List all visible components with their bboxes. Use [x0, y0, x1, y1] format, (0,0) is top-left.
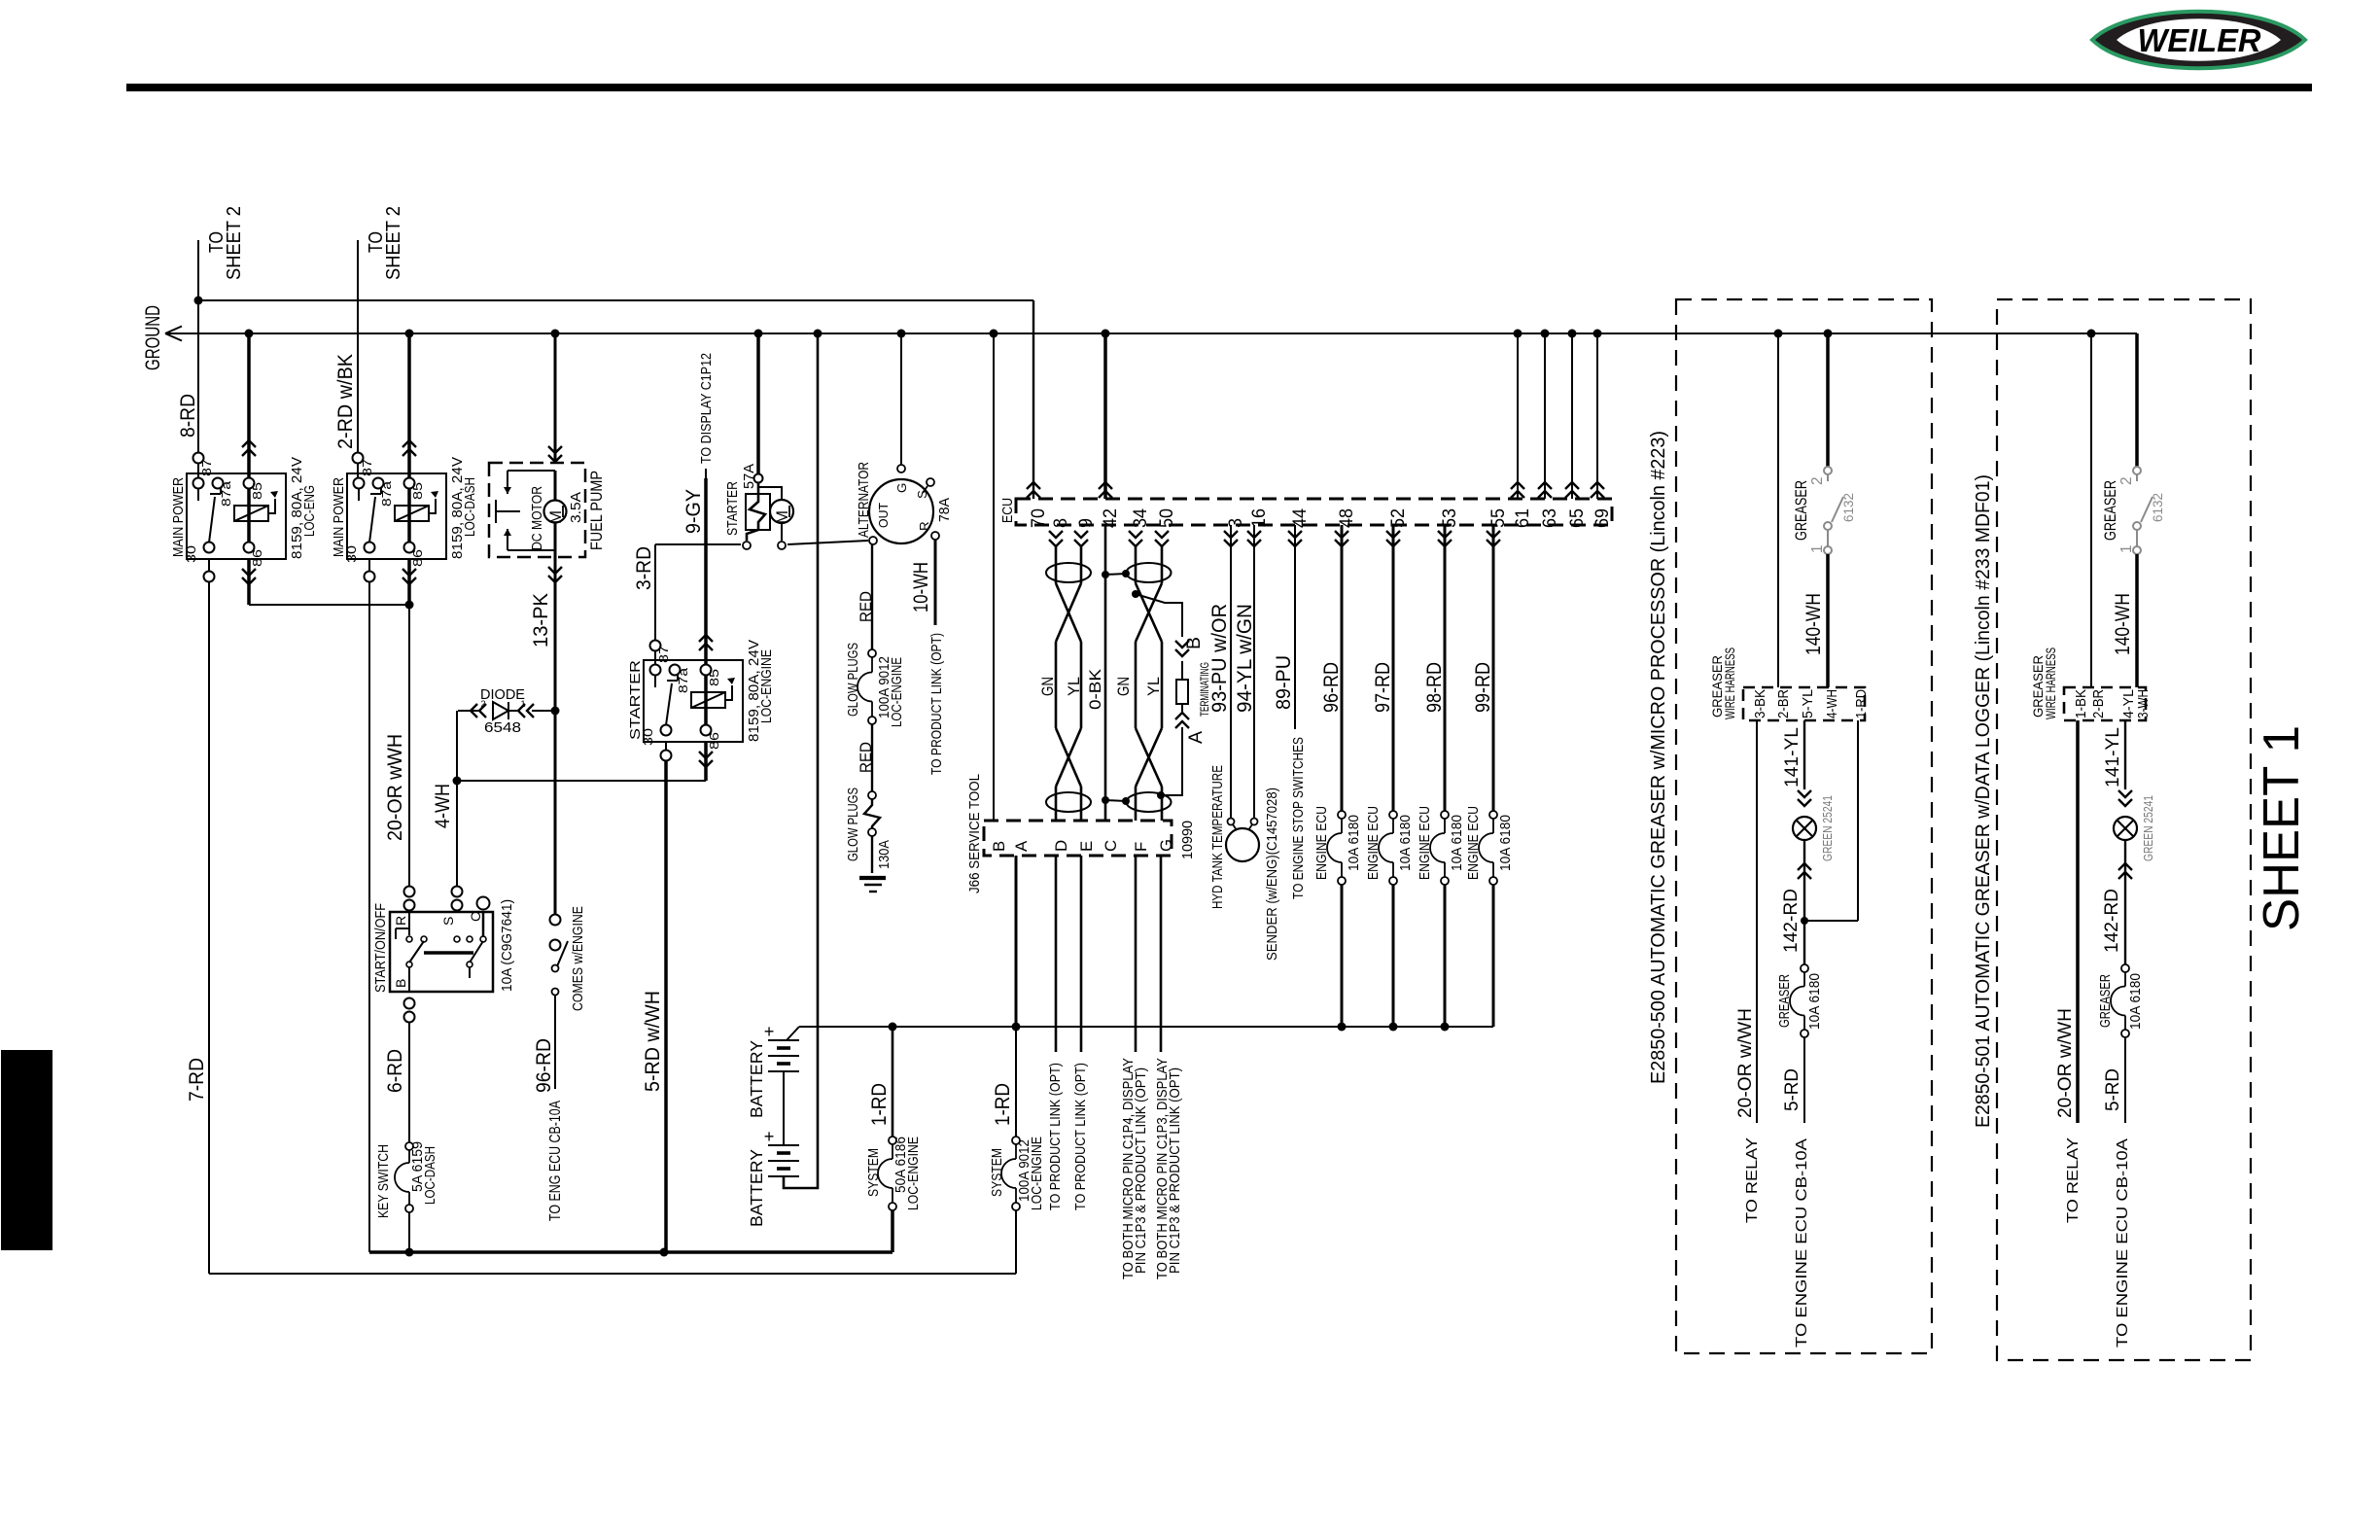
wire J66 B to ground [993, 333, 995, 821]
svg-text:YL: YL [1065, 677, 1083, 696]
svg-text:96-RD: 96-RD [533, 1038, 555, 1093]
wire 98-RD upper [1423, 525, 1446, 811]
relay K3 STARTER [628, 640, 775, 750]
label GREASER WIRE HARNESS g1 [1709, 647, 1737, 719]
wire 99-RD lower [1492, 885, 1495, 1027]
svg-text:ECU: ECU [1000, 498, 1016, 523]
GROUND label [142, 305, 164, 370]
wire J66 A down [1015, 856, 1018, 1027]
ECU pin 44 number [1289, 508, 1311, 528]
svg-text:97-RD: 97-RD [1372, 662, 1394, 713]
svg-text:TO ENGINE STOP SWITCHES: TO ENGINE STOP SWITCHES [1291, 737, 1307, 899]
label COMES w/ENGINE [571, 906, 586, 1011]
wire 97-RD upper [1372, 525, 1394, 811]
J66 pin A [1012, 840, 1031, 852]
wire 86-4WH link [457, 780, 706, 782]
label LOC-ENGINE f1 [906, 1137, 922, 1210]
ECU pin 44 chevron [1288, 531, 1302, 546]
terminal keyswitch C [477, 897, 490, 910]
svg-text:0-BK: 0-BK [1086, 669, 1104, 710]
label FUEL PUMP [587, 471, 606, 550]
label SYSTEM f2 [990, 1148, 1005, 1197]
svg-text:E: E [1077, 841, 1096, 852]
label YL 2 [1144, 677, 1163, 696]
node pin42 ground [1102, 330, 1110, 338]
svg-text:10A 6180: 10A 6180 [1347, 815, 1362, 871]
wire 3-RD into relay [654, 651, 656, 670]
node shield bot b [1122, 797, 1130, 805]
ECU pin 52 number [1387, 508, 1409, 528]
wire ECU pin42 to ground [1099, 333, 1112, 499]
label TO RELAY g1 [1743, 1137, 1761, 1223]
label TO ENGINE ECU CB-10A g1 [1793, 1138, 1810, 1347]
svg-text:DC MOTOR: DC MOTOR [530, 486, 545, 550]
wire greaser1 2-BR [1777, 333, 1779, 687]
wire ECU pin61 to ground [1511, 333, 1524, 499]
svg-text:B: B [1183, 637, 1205, 649]
label TO DISPLAY C1P12 [699, 353, 715, 478]
label 10A 6180 97 [1398, 815, 1414, 871]
node shield bot a [1102, 796, 1109, 804]
terminal 3-RD [650, 641, 661, 651]
fuse GLOW PLUGS 100A 9012 [857, 649, 876, 724]
svg-text:65: 65 [1566, 508, 1588, 528]
terminal keyswitch S a [452, 887, 463, 897]
svg-text:ENGINE ECU: ENGINE ECU [1366, 806, 1382, 880]
wire J66 D down [1055, 856, 1058, 1052]
ECU pin 55 chevron [1487, 531, 1500, 546]
ECU pin 61 number [1512, 508, 1533, 528]
svg-text:1-RD: 1-RD [1854, 689, 1870, 718]
svg-text:ALTERNATOR: ALTERNATOR [857, 462, 872, 538]
terminal 2-RD [353, 453, 364, 464]
label STARTER solenoid [725, 481, 741, 536]
svg-text:WEILER: WEILER [2138, 22, 2261, 58]
resistor terminating [1176, 661, 1188, 704]
chevron terminator B [1175, 641, 1189, 656]
svg-text:61: 61 [1512, 508, 1533, 528]
wire 6-RD [384, 1023, 409, 1142]
wire solenoid-3RD [655, 543, 741, 545]
g1 pin 2-BR [1776, 689, 1792, 718]
svg-text:ENGINE ECU: ENGINE ECU [1417, 806, 1433, 880]
node terminator top [1132, 590, 1139, 598]
svg-text:1: 1 [2118, 544, 2135, 553]
svg-text:85: 85 [707, 669, 721, 686]
svg-text:20-OR w/WH: 20-OR w/WH [2054, 1008, 2076, 1118]
svg-text:GREASER: GREASER [1777, 974, 1793, 1028]
label ENGINE ECU 98 [1417, 806, 1433, 880]
wire 10-WH [910, 540, 935, 625]
label 57A [742, 464, 757, 489]
wire 13-PK [530, 557, 562, 914]
node battery2 ground [814, 330, 822, 338]
svg-text:TO ENG ECU CB-10A: TO ENG ECU CB-10A [547, 1100, 564, 1221]
svg-text:TO ENGINE ECU CB-10A: TO ENGINE ECU CB-10A [1793, 1138, 1810, 1347]
wire g1 3-BK [1756, 720, 1758, 1123]
svg-text:G: G [1157, 839, 1175, 852]
wire relay2 85 to ground [402, 333, 416, 478]
svg-text:FUEL PUMP: FUEL PUMP [587, 471, 606, 550]
svg-text:GLOW PLUGS: GLOW PLUGS [846, 787, 861, 861]
svg-text:48: 48 [1336, 508, 1357, 528]
svg-text:D: D [1052, 840, 1070, 852]
ECU pin 50 number [1156, 508, 1177, 528]
svg-text:GREASER: GREASER [2101, 480, 2119, 541]
label DC MOTOR [530, 486, 545, 550]
ECU pin 69 number [1592, 508, 1613, 528]
node J66B ground [990, 330, 998, 338]
label 130A [877, 840, 892, 869]
wire 141-YL g2 [2102, 720, 2132, 806]
label GLOW PLUGS lower [846, 787, 861, 861]
wire 9-GY [682, 478, 713, 665]
label LOC-ENGINE f2 [1030, 1137, 1045, 1210]
ECU pin 55 number [1487, 508, 1509, 528]
label 20-OR w/WH g2 [2054, 1008, 2076, 1118]
switch GREASER 6132 g2 [2133, 467, 2152, 554]
svg-text:OUT: OUT [876, 503, 891, 528]
svg-text:1: 1 [1809, 544, 1826, 553]
label 10A 6180 g1 [1807, 973, 1823, 1030]
motor M fuel pump [544, 471, 567, 557]
svg-text:SHEET 1: SHEET 1 [2253, 725, 2309, 931]
svg-text:3.5A: 3.5A [569, 492, 584, 523]
terminal relay2-30 [365, 572, 375, 582]
svg-text:141-YL: 141-YL [2102, 727, 2123, 787]
wire shield link bot [1105, 800, 1126, 801]
terminal 57A [754, 474, 763, 483]
svg-text:TO RELAY: TO RELAY [2064, 1137, 2082, 1223]
svg-text:10990: 10990 [1180, 821, 1196, 859]
svg-text:4-YL: 4-YL [2121, 689, 2137, 718]
node 142 g1 [1801, 917, 1808, 925]
svg-text:B: B [393, 979, 408, 988]
wire relay2-30 stub [368, 559, 370, 572]
wire 97-RD lower [1392, 885, 1395, 1027]
chevron terminator A [1175, 704, 1189, 728]
ground symbol glow [859, 878, 886, 892]
fuse ENGINE ECU 98 [1430, 811, 1449, 885]
wire 96-RD upper [1320, 525, 1343, 811]
svg-text:PIN C1P3 & PRODUCT LINK (OPT): PIN C1P3 & PRODUCT LINK (OPT) [1168, 1067, 1183, 1274]
ECU pin 34 number [1130, 508, 1151, 528]
svg-text:87: 87 [199, 459, 214, 476]
svg-text:START/ON/OFF: START/ON/OFF [373, 903, 389, 993]
wire fuel pump feed [548, 333, 562, 463]
node fuse bus [1441, 1023, 1450, 1032]
svg-text:TO ENGINE ECU CB-10A: TO ENGINE ECU CB-10A [2114, 1138, 2131, 1347]
wire 5-RD g2 [2102, 1037, 2125, 1123]
label sw1 2 [1809, 476, 1826, 485]
terminal keyswitch B b [404, 1012, 415, 1023]
ground bus [165, 327, 2137, 341]
label 6132 g2 [2150, 493, 2165, 522]
svg-text:ENGINE ECU: ENGINE ECU [1466, 806, 1482, 880]
svg-text:5-RD: 5-RD [1781, 1068, 1802, 1111]
node pin63 ground [1541, 330, 1550, 338]
wire 5-RD g1 [1781, 1037, 1804, 1123]
svg-text:RED: RED [857, 591, 875, 622]
svg-text:5-RD w/WH: 5-RD w/WH [642, 991, 664, 1092]
ECU pin 9 number [1075, 518, 1097, 528]
node pin69 ground [1593, 330, 1602, 338]
wire line B [209, 1273, 1016, 1275]
label 10A 6180 99 [1498, 815, 1514, 871]
label GN 2 [1114, 677, 1133, 696]
svg-text:20-OR wWH: 20-OR wWH [384, 734, 406, 841]
svg-text:STARTER: STARTER [628, 660, 644, 740]
wire 140-WH g1 [1802, 554, 1828, 687]
label YL 1 [1065, 677, 1083, 696]
wire 2-RD into relay [357, 464, 359, 483]
svg-text:10A (C9G7641): 10A (C9G7641) [500, 899, 515, 992]
node pin61 ground [1514, 330, 1522, 338]
ECU pin 9 chevron [1074, 531, 1088, 546]
J66 pin G [1157, 839, 1175, 852]
g2 pin 4-YL [2121, 689, 2137, 718]
svg-text:KEY SWITCH: KEY SWITCH [376, 1144, 392, 1218]
battery 2 [747, 1127, 799, 1227]
label SYSTEM f1 [866, 1148, 882, 1197]
fuse KEY SWITCH 5A 6159 [395, 1142, 413, 1212]
terminal keyswitch B a [404, 998, 415, 1009]
node lineA 5RD [660, 1248, 669, 1257]
svg-text:SHEET 2: SHEET 2 [224, 206, 245, 280]
wire battery2 neg [784, 333, 818, 1188]
J66 pin D [1052, 840, 1070, 852]
svg-text:DIODE: DIODE [480, 687, 525, 703]
wire 3-RD [633, 544, 655, 640]
switch GREASER 6132 g1 [1824, 467, 1843, 554]
label 5A 6159 [410, 1141, 426, 1192]
wire battery1-battery2 [783, 1071, 785, 1145]
lamp GREEN 25241 g2 [2114, 817, 2137, 879]
greaser2 harness box [2064, 687, 2146, 720]
label 100A 9012 [877, 656, 892, 718]
svg-text:RED: RED [857, 742, 875, 773]
svg-text:C: C [1102, 840, 1120, 852]
svg-text:70: 70 [1028, 508, 1049, 528]
svg-text:LOC-ENGINE: LOC-ENGINE [759, 649, 775, 723]
fuse ENGINE ECU 99 [1479, 811, 1497, 885]
label ENGINE ECU 99 [1466, 806, 1482, 880]
svg-text:GN: GN [1038, 677, 1057, 696]
wire greaser2 2-BR [2090, 333, 2092, 687]
svg-text:63: 63 [1539, 508, 1560, 528]
key switch box START/ON/OFF [390, 912, 493, 992]
lamp GREEN 25241 g1 [1793, 817, 1816, 879]
g2 pin 1-BK [2074, 689, 2089, 718]
g1 pin 1-RD [1854, 689, 1870, 718]
svg-text:3: 3 [1225, 518, 1246, 528]
svg-text:140-WH: 140-WH [2112, 593, 2134, 655]
SHEET 1 title [2253, 725, 2309, 931]
ECU pin 16 chevron [1247, 531, 1261, 546]
node 57A ground [754, 330, 763, 338]
starter solenoid box [746, 494, 770, 530]
node sysfuse2 bus [1012, 1023, 1021, 1032]
svg-text:89-PU: 89-PU [1273, 655, 1295, 710]
label TO BOTH MICRO C1P4 line2 [1134, 1067, 1149, 1274]
label 50A 6186 [893, 1137, 909, 1193]
wire battery1 pos [787, 1027, 799, 1040]
label 20-OR w/WH g1 [1734, 1008, 1756, 1118]
label GREASER WIRE HARNESS g2 [2030, 647, 2058, 719]
label GREASER fuse g1 [1777, 974, 1793, 1028]
wire terminator bottom link [1161, 727, 1182, 795]
svg-text:TO PRODUCT LINK (OPT): TO PRODUCT LINK (OPT) [929, 633, 945, 775]
svg-text:PIN C1P3 & PRODUCT LINK (OPT): PIN C1P3 & PRODUCT LINK (OPT) [1134, 1067, 1149, 1274]
svg-text:TO RELAY: TO RELAY [1743, 1137, 1761, 1223]
svg-text:STARTER: STARTER [725, 481, 741, 536]
J66 pin C [1102, 840, 1120, 852]
svg-text:LOC-ENGINE: LOC-ENGINE [1030, 1137, 1045, 1210]
label sw2 2 [2118, 476, 2135, 485]
label 78A [937, 498, 953, 522]
label 10A 6180 98 [1450, 815, 1465, 871]
svg-text:5-RD: 5-RD [2102, 1068, 2123, 1111]
wire greaser2 switch feed [2135, 333, 2139, 467]
svg-text:E2850-501 AUTOMATIC GREASER w/: E2850-501 AUTOMATIC GREASER w/DATA LOGGE… [1973, 474, 1994, 1128]
node sysfuse1 bus [889, 1023, 897, 1032]
ECU pin 53 chevron [1438, 531, 1452, 546]
g1 pin 5-YL [1801, 689, 1816, 718]
label TERMINATING [1198, 662, 1211, 717]
svg-text:6132: 6132 [2150, 493, 2165, 522]
connector 13-PK a [550, 915, 561, 926]
fuse SYSTEM 100A 9012 [1001, 1137, 1020, 1210]
svg-text:R: R [917, 521, 931, 531]
wire J66 E down [1080, 856, 1083, 1052]
to-sheet-2 bus [198, 300, 1040, 499]
svg-text:LOC-ENGINE: LOC-ENGINE [890, 657, 905, 727]
svg-text:86: 86 [410, 549, 425, 567]
ECU pin 53 number [1439, 508, 1460, 528]
svg-text:16: 16 [1248, 508, 1270, 528]
svg-text:GN: GN [1114, 677, 1133, 696]
label 100A 9012 f2 [1017, 1139, 1032, 1202]
wire solenoid-alternator [787, 541, 868, 544]
svg-text:141-YL: 141-YL [1781, 727, 1802, 787]
wire 96-RD [533, 995, 555, 1093]
label sw1 1 [1809, 544, 1826, 553]
svg-text:87a: 87a [676, 667, 690, 693]
label GREEN 25241 g1 [1821, 795, 1835, 861]
label TO ENG ECU CB-10A [547, 1100, 564, 1221]
svg-text:LOC-ENGINE: LOC-ENGINE [906, 1137, 922, 1210]
label GREASER sw2 [2101, 480, 2119, 541]
svg-text:98-RD: 98-RD [1423, 662, 1446, 713]
wire 7-RD [186, 582, 209, 1274]
svg-text:LOC-DASH: LOC-DASH [423, 1146, 438, 1205]
motor M starter [758, 487, 793, 541]
svg-text:GLOW PLUGS: GLOW PLUGS [846, 643, 861, 717]
connector 13-PK b [550, 940, 561, 951]
svg-text:8-RD: 8-RD [177, 394, 199, 437]
wire f2 to lineB [1015, 1210, 1017, 1274]
wire f1 to lineA [891, 1210, 894, 1252]
svg-text:2: 2 [1809, 476, 1826, 485]
wire 2-RD w/BK [334, 240, 358, 452]
node fuse bus [1338, 1023, 1347, 1032]
svg-text:20-OR w/WH: 20-OR w/WH [1734, 1008, 1756, 1118]
svg-text:2: 2 [2118, 476, 2135, 485]
svg-text:BATTERY: BATTERY [747, 1040, 766, 1118]
svg-text:F: F [1132, 842, 1150, 852]
wire 20-OR wWH [384, 605, 409, 886]
svg-text:87: 87 [360, 459, 374, 476]
terminal solenoid L [743, 542, 751, 549]
node 4WH-86 junction [453, 777, 462, 786]
svg-text:TO PRODUCT LINK (OPT): TO PRODUCT LINK (OPT) [1073, 1063, 1089, 1210]
svg-text:GREEN 25241: GREEN 25241 [2142, 795, 2155, 861]
terminal solenoid R [778, 542, 786, 549]
label GREASER fuse g2 [2098, 974, 2114, 1028]
svg-text:COMES w/ENGINE: COMES w/ENGINE [571, 906, 586, 1011]
svg-text:R: R [393, 916, 408, 926]
svg-text:LOC-ENG: LOC-ENG [302, 485, 318, 537]
svg-text:2-BR: 2-BR [1776, 689, 1792, 718]
svg-text:69: 69 [1592, 508, 1613, 528]
wire 94-YL [1234, 525, 1256, 818]
label 10A 6180 96 [1347, 815, 1362, 871]
ECU pin 48 chevron [1335, 531, 1348, 546]
svg-text:87: 87 [656, 646, 671, 663]
node fuelpump ground [551, 330, 560, 338]
svg-text:YL: YL [1144, 677, 1163, 696]
svg-text:10A 6180: 10A 6180 [1398, 815, 1414, 871]
label ALTERNATOR [857, 462, 872, 538]
wire line A [369, 1250, 892, 1254]
svg-text:J66 SERVICE TOOL: J66 SERVICE TOOL [967, 774, 983, 893]
svg-text:SENDER (w/ENG)(C1457028): SENDER (w/ENG)(C1457028) [1265, 787, 1280, 961]
fuse GREASER 10A 6180 g2 [2111, 964, 2129, 1037]
svg-text:85: 85 [410, 482, 425, 500]
wire 5-RD w/WH [642, 761, 666, 1252]
label 0-BK [1086, 669, 1104, 710]
J66 service tool box [984, 821, 1172, 856]
svg-text:G: G [894, 483, 909, 493]
wire terminator top link [1136, 594, 1182, 637]
fuse SYSTEM 50A 6186 [878, 1137, 896, 1210]
wire g2 1-BK [2076, 720, 2080, 1123]
svg-text:2-RD w/BK: 2-RD w/BK [334, 354, 357, 449]
svg-text:S: S [440, 917, 456, 926]
ECU pin 52 chevron [1386, 531, 1400, 546]
label GREASER sw1 [1792, 480, 1810, 541]
svg-text:87a: 87a [379, 480, 394, 507]
wire 140-WH g2 [2112, 554, 2137, 687]
svg-text:WIRE HARNESS: WIRE HARNESS [2043, 647, 2058, 719]
wire glow RED upper [857, 544, 875, 649]
svg-text:10A 6180: 10A 6180 [1498, 815, 1514, 871]
ECU pin 8 chevron [1049, 531, 1063, 546]
ECU pin 65 number [1566, 508, 1588, 528]
top rule [126, 84, 2312, 91]
label 3.5A [569, 492, 584, 523]
label ECU [1000, 498, 1016, 523]
label GREEN 25241 g2 [2142, 795, 2155, 861]
label TO BOTH MICRO C1P3 line1 [1155, 1058, 1171, 1279]
svg-text:LOC-DASH: LOC-DASH [463, 477, 478, 537]
svg-text:4-WH: 4-WH [432, 784, 454, 828]
node pin65 ground [1568, 330, 1577, 338]
ECU pin 70 number [1028, 508, 1049, 528]
node greaser1 2BR [1774, 330, 1783, 338]
wire relay1-30 stub [208, 559, 210, 572]
svg-text:99-RD: 99-RD [1472, 662, 1494, 713]
